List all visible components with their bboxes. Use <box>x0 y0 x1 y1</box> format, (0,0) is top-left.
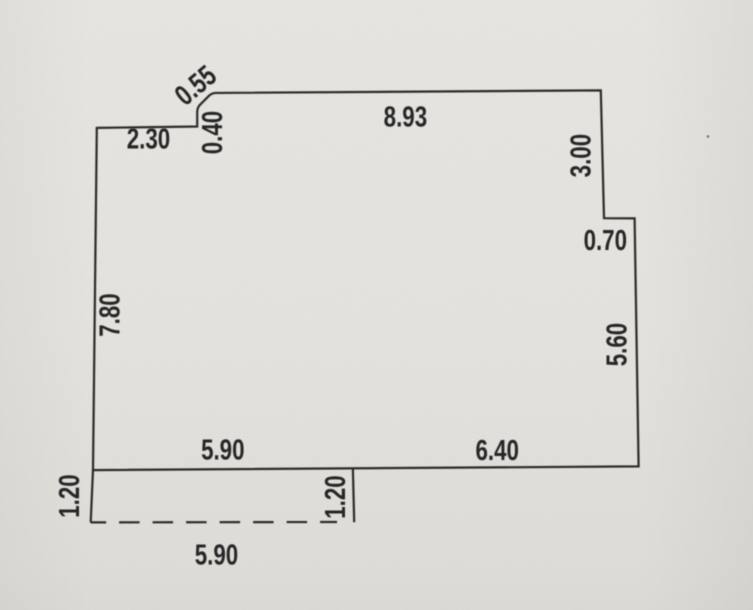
middle extension tick 1.20 <box>353 469 354 522</box>
svg-text:1.20: 1.20 <box>54 474 85 517</box>
svg-text:2.30: 2.30 <box>127 124 170 155</box>
svg-text:8.93: 8.93 <box>384 102 427 133</box>
svg-text:6.40: 6.40 <box>475 435 518 466</box>
wall outline: top-left step, chamfer, top wall, right step, bottom wall, left wall <box>93 90 639 470</box>
svg-text:0.40: 0.40 <box>197 111 228 154</box>
svg-text:0.70: 0.70 <box>584 225 627 256</box>
left extension tick 1.20 <box>91 470 93 522</box>
dust speck <box>707 135 710 138</box>
svg-text:3.00: 3.00 <box>566 134 597 177</box>
svg-text:5.60: 5.60 <box>602 323 633 366</box>
svg-text:7.80: 7.80 <box>95 293 126 336</box>
svg-text:5.90: 5.90 <box>201 435 244 466</box>
dashed extension line 5.90 <box>91 521 337 524</box>
svg-text:5.90: 5.90 <box>195 540 238 571</box>
svg-text:1.20: 1.20 <box>320 475 351 518</box>
